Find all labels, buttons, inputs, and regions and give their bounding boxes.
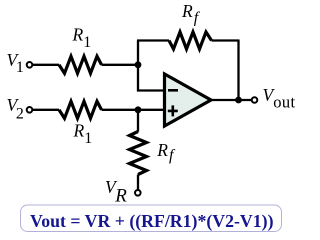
terminal VR <box>135 190 141 196</box>
svg-text:Rf: Rf <box>181 1 201 26</box>
resistor R1 (bottom) <box>59 101 102 118</box>
svg-text:VR: VR <box>105 177 127 207</box>
svg-text:R1: R1 <box>72 25 92 51</box>
resistor Rf (to VR) <box>130 132 147 175</box>
wire V1 to R1 <box>33 64 60 66</box>
wire node A up to feedback rail <box>137 41 139 65</box>
resistor Rf (feedback) <box>169 32 212 49</box>
op-amp plus pin <box>168 105 178 116</box>
wire feedback right leg down <box>237 41 239 101</box>
svg-text:V2: V2 <box>7 95 24 123</box>
terminal V1 <box>27 62 33 68</box>
junction node A <box>135 61 142 68</box>
svg-text:Vout: Vout <box>263 85 296 112</box>
wire node A down to inverting input <box>138 65 165 91</box>
op-amp U1 <box>165 74 212 126</box>
wire node B down to Rf <box>137 110 139 132</box>
wire output <box>210 99 252 101</box>
svg-text:R1: R1 <box>73 120 93 147</box>
formula box <box>21 205 282 232</box>
wire feedback rail right <box>212 39 240 41</box>
wire R1 to node B <box>102 109 166 111</box>
svg-text:V1: V1 <box>7 50 24 76</box>
wire Rf to VR terminal <box>137 175 139 191</box>
svg-text:Rf: Rf <box>156 140 176 164</box>
junction output node <box>235 97 242 104</box>
wire feedback rail left <box>137 39 169 41</box>
wire V2 to R1 <box>33 109 60 111</box>
svg-text:Vout = VR + ((RF/R1)*(V2-V1)): Vout = VR + ((RF/R1)*(V2-V1)) <box>30 211 274 232</box>
wire R1 to node A <box>102 64 139 66</box>
resistor R1 (top) <box>59 56 102 73</box>
junction node B <box>135 106 142 113</box>
terminal Vout <box>252 97 258 103</box>
terminal V2 <box>27 107 33 113</box>
op-amp minus pin <box>168 89 178 92</box>
